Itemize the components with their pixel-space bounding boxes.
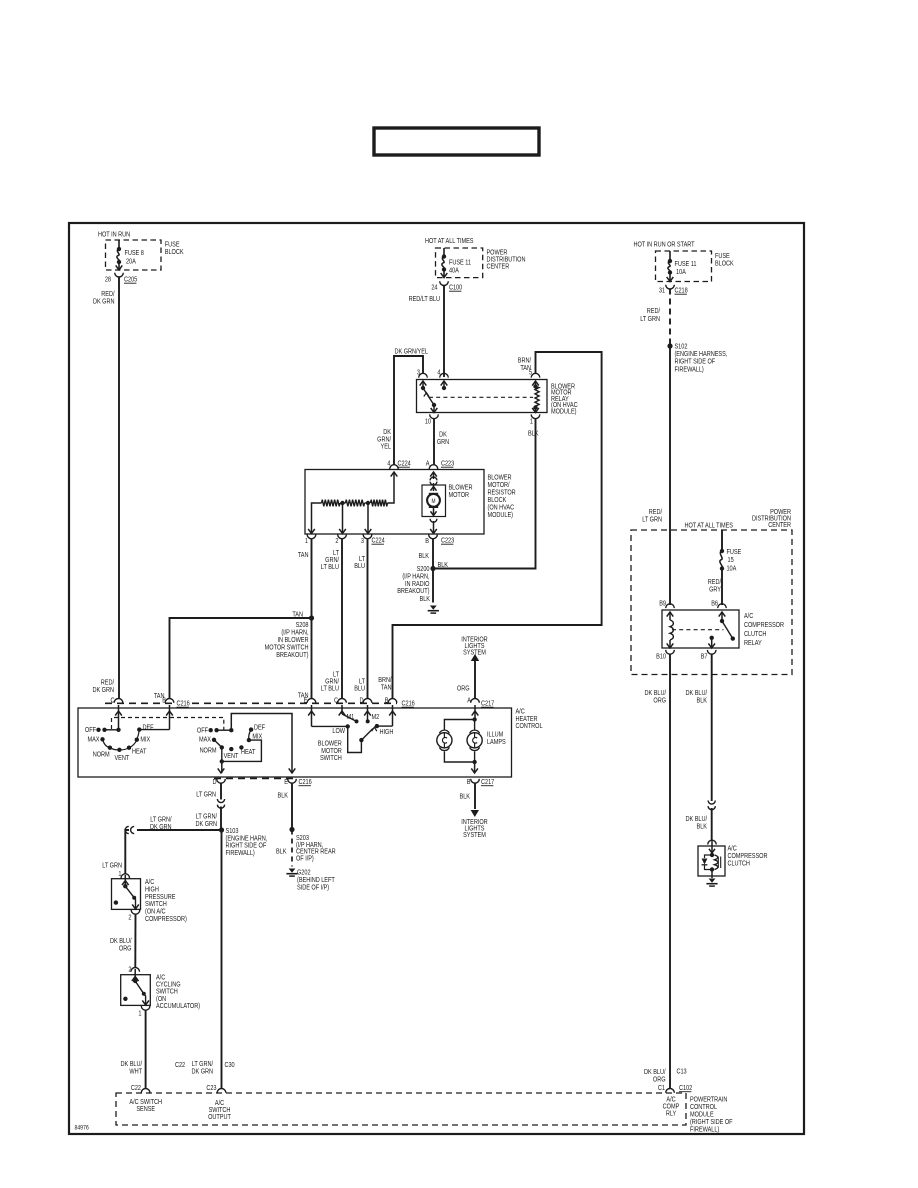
diagram border frame (69, 223, 804, 1134)
connector C223 pin B (425, 535, 454, 546)
svg-text:C217: C217 (481, 700, 495, 708)
svg-text:LT BLU: LT BLU (321, 685, 340, 693)
wire LT GRN (C216 pin D to S103) (195, 783, 224, 830)
svg-text:C223: C223 (441, 460, 455, 468)
svg-text:MAX: MAX (88, 736, 101, 744)
fuse F15 (FUSE 15 10A in PDC) (708, 530, 741, 605)
svg-text:LT GRN: LT GRN (102, 862, 122, 870)
svg-text:SIDE OF I/P): SIDE OF I/P) (297, 884, 329, 892)
svg-text:BLK: BLK (278, 792, 289, 800)
svg-text:RED/: RED/ (647, 307, 660, 315)
svg-text:C205: C205 (124, 276, 138, 284)
svg-text:HOT IN RUN OR START: HOT IN RUN OR START (634, 241, 695, 249)
svg-text:C30: C30 (224, 1061, 235, 1069)
svg-text:2: 2 (335, 537, 339, 545)
svg-text:SENSE: SENSE (136, 1105, 155, 1113)
connector C205 pin 28 (105, 273, 138, 284)
svg-text:C223: C223 (441, 537, 455, 545)
svg-text:OUTPUT: OUTPUT (208, 1113, 231, 1121)
svg-text:C22: C22 (175, 1061, 186, 1069)
svg-text:BLU: BLU (354, 562, 365, 570)
ground (A/C compressor clutch) (706, 879, 717, 887)
wire LT GRN/DK GRN (S103 to PCM pin C23) (191, 830, 235, 1089)
svg-text:HOT IN RUN: HOT IN RUN (98, 231, 131, 239)
svg-text:CLUTCH: CLUTCH (744, 630, 767, 638)
relay switch (pins 3/4 to 10) (420, 381, 448, 413)
svg-text:C102: C102 (679, 1084, 693, 1092)
svg-text:M2: M2 (372, 713, 380, 721)
svg-text:GRY: GRY (709, 586, 722, 594)
blower motor/resistor block box (305, 470, 516, 535)
svg-text:BLU: BLU (354, 685, 365, 693)
svg-text:24: 24 (431, 284, 438, 292)
splice S203 (289, 827, 336, 863)
svg-text:3: 3 (417, 369, 421, 377)
connector C223 pin A (426, 460, 455, 469)
svg-text:FUSE 8: FUSE 8 (124, 249, 144, 257)
resistor chain (blower resistors) (308, 472, 397, 534)
wire TAN (C224 pin 1 to S208) (292, 539, 311, 619)
svg-text:M1: M1 (346, 713, 354, 721)
svg-text:RLY: RLY (666, 1110, 677, 1118)
wire BLK (C223 pin B to S200) (419, 539, 433, 569)
svg-text:ORG: ORG (457, 685, 470, 693)
splice S200 (397, 565, 435, 595)
svg-text:BLOCK: BLOCK (165, 248, 184, 256)
mode switch 2 (OFF MAX NORM VENT HEAT MIX DEF) (197, 714, 295, 774)
power distribution center dashed box (631, 508, 792, 674)
svg-text:D: D (212, 778, 216, 786)
svg-text:DEF: DEF (142, 724, 153, 732)
A/C compressor clutch (698, 840, 768, 878)
svg-text:10A: 10A (676, 268, 687, 276)
svg-text:1: 1 (138, 1010, 142, 1018)
clutch relay pin B7 connector (701, 650, 716, 661)
clutch relay pin B10 connector (656, 650, 674, 661)
relay pin 3 connector (417, 369, 427, 378)
wire DK GRN (relay pin 10 to C223 pin A) (434, 418, 450, 465)
wire DK BLU/ORG (high pressure switch to cycling switch) (110, 914, 135, 968)
svg-text:C100: C100 (449, 284, 463, 292)
svg-text:BREAKOUT): BREAKOUT) (276, 651, 308, 659)
svg-text:COMPRESSOR): COMPRESSOR) (145, 915, 187, 923)
svg-text:4: 4 (387, 460, 391, 468)
svg-text:10: 10 (425, 418, 432, 426)
wire RED/LT GRN dashed (C218 to S102) (640, 289, 670, 345)
svg-text:MAX: MAX (199, 736, 212, 744)
svg-text:BLK: BLK (438, 561, 449, 569)
svg-text:OF I/P): OF I/P) (296, 855, 314, 863)
svg-text:A/C: A/C (744, 612, 754, 620)
svg-text:C23: C23 (206, 1084, 217, 1092)
relay pin 1 connector (530, 414, 540, 425)
svg-text:ORG: ORG (119, 945, 132, 953)
svg-text:15: 15 (728, 556, 735, 564)
svg-text:NORM: NORM (200, 747, 217, 755)
blower motor switch (308, 705, 396, 762)
svg-text:GRN: GRN (437, 438, 450, 446)
clutch relay internal dashed link (672, 629, 724, 631)
svg-text:MODULE): MODULE) (551, 408, 577, 416)
wire DK BLU/ORG (clutch relay B10 to PCM pin C1) (644, 654, 687, 1090)
svg-text:MOTOR: MOTOR (448, 491, 469, 499)
wire BLK (C217 pin B to interior lights system) (460, 783, 489, 840)
fuse F11b (FUSE 11 10A) (667, 251, 697, 282)
svg-text:31: 31 (659, 287, 666, 295)
svg-text:MIX: MIX (140, 736, 151, 744)
mechanical link (dashed) between mode switches (112, 718, 224, 730)
svg-text:C216: C216 (298, 778, 312, 786)
relay pin 10 connector (425, 414, 438, 425)
svg-text:B: B (467, 778, 471, 786)
svg-text:HEAT: HEAT (241, 748, 255, 756)
clutch relay switch (B6 to B7) (708, 612, 735, 648)
svg-text:C: C (334, 697, 338, 705)
svg-text:LT GRN: LT GRN (642, 516, 662, 524)
fuse block (upper left) dashed box (98, 231, 184, 270)
splice S103 (219, 827, 268, 857)
clutch relay pin B9 connector (659, 600, 674, 608)
wire TAN (S208 to C216 pin E) (298, 618, 312, 700)
svg-text:B6: B6 (711, 600, 718, 608)
svg-text:BREAKOUT): BREAKOUT) (397, 588, 429, 596)
svg-text:SWITCH: SWITCH (320, 755, 342, 763)
wire RED/LT BLU (C100 to blower motor relay pin 4) (409, 285, 444, 377)
svg-text:10A: 10A (726, 565, 737, 573)
PCM pin C1 connector (C102) (658, 1084, 693, 1117)
svg-text:C216: C216 (176, 700, 190, 708)
svg-text:LT GRN: LT GRN (640, 315, 660, 323)
diagram id 84976 (74, 1125, 89, 1132)
wire RED/DK GRN (C205 to A/C heater control pin C) (92, 277, 119, 700)
svg-text:HOT AT ALL TIMES: HOT AT ALL TIMES (684, 522, 732, 530)
splice S208 (265, 615, 314, 659)
wire DK BLU/WHT (cycling switch to PCM pin C22) (121, 1010, 186, 1090)
svg-text:HOT AT ALL TIMES: HOT AT ALL TIMES (425, 237, 473, 245)
connector C218 pin 31 (659, 285, 688, 295)
svg-text:BLK: BLK (697, 697, 708, 705)
A/C high pressure switch (112, 870, 187, 923)
wire BLK (C216 pin E to S203) (278, 783, 292, 829)
svg-text:RED/LT BLU: RED/LT BLU (409, 295, 441, 303)
svg-text:CENTER: CENTER (768, 522, 791, 530)
svg-text:2: 2 (128, 966, 132, 974)
blower motor (422, 472, 473, 534)
wire BRN/TAN (relay pin 5 to C216 pin B) (378, 352, 601, 699)
svg-text:OFF: OFF (85, 726, 96, 734)
svg-text:HIGH: HIGH (380, 728, 394, 736)
A/C cycling switch (121, 966, 200, 1018)
svg-text:OFF: OFF (197, 727, 208, 735)
svg-text:BLK: BLK (420, 595, 431, 603)
svg-text:FIREWALL): FIREWALL) (690, 1126, 719, 1134)
svg-text:VENT: VENT (114, 754, 129, 762)
svg-text:DK GRN: DK GRN (93, 298, 115, 306)
interior lights system (feed ORG) (457, 636, 488, 699)
svg-text:BLK: BLK (419, 552, 430, 560)
svg-text:CENTER: CENTER (486, 263, 509, 271)
clutch relay pin B6 connector (711, 600, 726, 608)
svg-text:C13: C13 (676, 1068, 687, 1076)
svg-text:B: B (385, 697, 389, 705)
svg-text:3: 3 (361, 537, 365, 545)
fuse F8 (FUSE 8 20A) (116, 240, 145, 270)
blower motor relay box (417, 380, 579, 416)
svg-text:DK GRN: DK GRN (92, 686, 114, 694)
svg-text:C224: C224 (372, 537, 386, 545)
svg-text:2: 2 (128, 914, 132, 922)
svg-text:CONTROL: CONTROL (516, 723, 544, 731)
PCM pin C23 connector (206, 1084, 231, 1121)
svg-text:LAMPS: LAMPS (487, 738, 506, 746)
svg-text:20A: 20A (126, 258, 137, 266)
svg-text:DK GRN: DK GRN (195, 820, 217, 828)
svg-text:4: 4 (437, 369, 441, 377)
connector C217 pin B (467, 778, 495, 786)
svg-text:FUSE 11: FUSE 11 (449, 259, 471, 267)
svg-text:BLK: BLK (528, 430, 539, 438)
svg-text:DK GRN: DK GRN (150, 823, 172, 831)
svg-text:COMPRESSOR: COMPRESSOR (744, 621, 784, 629)
svg-text:B9: B9 (659, 600, 666, 608)
svg-text:D: D (360, 697, 364, 705)
svg-text:E: E (284, 778, 288, 786)
wire LT BLU (C224 pin 3 to C216 pin D) (354, 539, 367, 700)
svg-text:WHT: WHT (129, 1068, 142, 1076)
svg-text:40A: 40A (449, 267, 460, 275)
fuse F11 (FUSE 11 40A) (441, 248, 472, 278)
svg-text:MODULE): MODULE) (488, 511, 514, 519)
svg-text:SYSTEM: SYSTEM (463, 832, 486, 840)
svg-text:S102: S102 (674, 343, 687, 351)
powertrain control module dashed box (116, 1093, 733, 1134)
wire DK BLU/BLK (clutch relay B7 to A/C compressor clutch) (686, 654, 716, 841)
connector C216 (bottom row) (212, 778, 312, 786)
svg-text:LT GRN: LT GRN (196, 791, 216, 799)
connector C224 pin 4 (387, 460, 411, 469)
svg-text:B10: B10 (656, 653, 666, 661)
relay pin 5 connector (529, 369, 540, 378)
wire DK GRN/YEL (relay pin 3 to C224 pin 4) (377, 348, 428, 465)
svg-text:VENT: VENT (224, 752, 239, 760)
illumination lamps (437, 705, 506, 773)
wire LT GRN/LT BLU (C224 pin 2 to C216 pin C) (321, 539, 342, 700)
svg-text:DEF: DEF (254, 724, 265, 732)
A/C heater control box (78, 708, 543, 777)
svg-text:DK GRN/YEL: DK GRN/YEL (394, 348, 428, 356)
svg-text:NORM: NORM (93, 751, 110, 759)
connector C216 (top row) (105, 697, 415, 708)
svg-text:BLK: BLK (460, 793, 471, 801)
svg-text:28: 28 (105, 276, 112, 284)
wire BLK dashed (S203 to G202) (276, 830, 292, 867)
wire BLK (relay pin 1 to S200) (435, 418, 539, 569)
svg-text:1: 1 (118, 870, 122, 878)
svg-text:FIREWALL): FIREWALL) (226, 849, 255, 857)
svg-text:DK GRN: DK GRN (191, 1068, 213, 1076)
svg-text:C224: C224 (398, 460, 412, 468)
svg-text:ACCUMULATOR): ACCUMULATOR) (156, 1002, 200, 1010)
svg-text:FUSE: FUSE (726, 548, 741, 556)
svg-text:84976: 84976 (74, 1125, 89, 1132)
svg-text:BLK: BLK (276, 848, 287, 856)
svg-text:C217: C217 (481, 778, 495, 786)
svg-text:E: E (304, 697, 308, 705)
svg-text:TAN: TAN (520, 364, 531, 372)
ground (S200 BLK) (428, 606, 439, 614)
title box (374, 128, 539, 155)
svg-text:TAN: TAN (298, 551, 309, 559)
svg-text:C216: C216 (402, 700, 416, 708)
connector C217 pin A (467, 697, 494, 708)
svg-text:RELAY: RELAY (744, 639, 762, 647)
svg-text:ORG: ORG (653, 697, 666, 705)
svg-text:C: C (110, 697, 114, 705)
wire RED/LT GRN (S102 to A/C compressor clutch relay pin B9) (642, 346, 670, 605)
A/C compressor clutch relay box (662, 610, 784, 648)
svg-text:FIREWALL): FIREWALL) (674, 366, 703, 374)
svg-text:B: B (425, 537, 429, 545)
svg-text:BLK: BLK (697, 823, 708, 831)
connector C100 pin 24 (431, 281, 462, 292)
svg-text:HEAT: HEAT (132, 748, 146, 756)
svg-text:BLOCK: BLOCK (715, 260, 734, 268)
svg-text:B: B (162, 697, 166, 705)
svg-text:C218: C218 (674, 287, 688, 295)
svg-text:CLUTCH: CLUTCH (728, 860, 751, 868)
power distribution center (top) dashed box (425, 237, 526, 277)
splice S102 (667, 343, 727, 374)
svg-text:C22: C22 (131, 1084, 142, 1092)
ground G202 (286, 869, 334, 892)
relay internal dashed link (429, 396, 533, 398)
relay pin 4 connector (437, 369, 448, 378)
svg-text:LOW: LOW (332, 727, 345, 735)
svg-text:ORG: ORG (653, 1076, 666, 1084)
svg-text:1: 1 (530, 418, 534, 426)
mode switch 1 (OFF MAX NORM VENT HEAT MIX DEF) (85, 705, 173, 762)
wire TAN (S208 to C216 pin B left) (154, 618, 312, 700)
svg-text:YEL: YEL (381, 443, 392, 451)
svg-text:M: M (432, 499, 436, 506)
svg-text:LT BLU: LT BLU (321, 563, 340, 571)
connector C224 pins 1 2 3 (305, 535, 385, 546)
wire BLK (S200 to ground) (420, 569, 433, 604)
fuse block (upper right) dashed box (634, 241, 735, 282)
clutch relay coil (B9 to B10) (667, 612, 674, 648)
svg-text:B7: B7 (701, 653, 708, 661)
svg-text:1: 1 (305, 537, 309, 545)
svg-text:C1: C1 (658, 1084, 666, 1092)
wire LT GRN/DK GRN (S103 to A/C high pressure switch) (102, 816, 221, 874)
svg-text:RIGHT SIDE OF: RIGHT SIDE OF (674, 358, 715, 366)
svg-text:(ENGINE HARNESS,: (ENGINE HARNESS, (674, 351, 727, 359)
svg-text:TAN: TAN (381, 684, 392, 692)
PCM pin C22 connector (129, 1084, 162, 1113)
svg-text:FUSE 11: FUSE 11 (674, 260, 696, 268)
relay coil (pins 5 to 1) (532, 381, 539, 413)
